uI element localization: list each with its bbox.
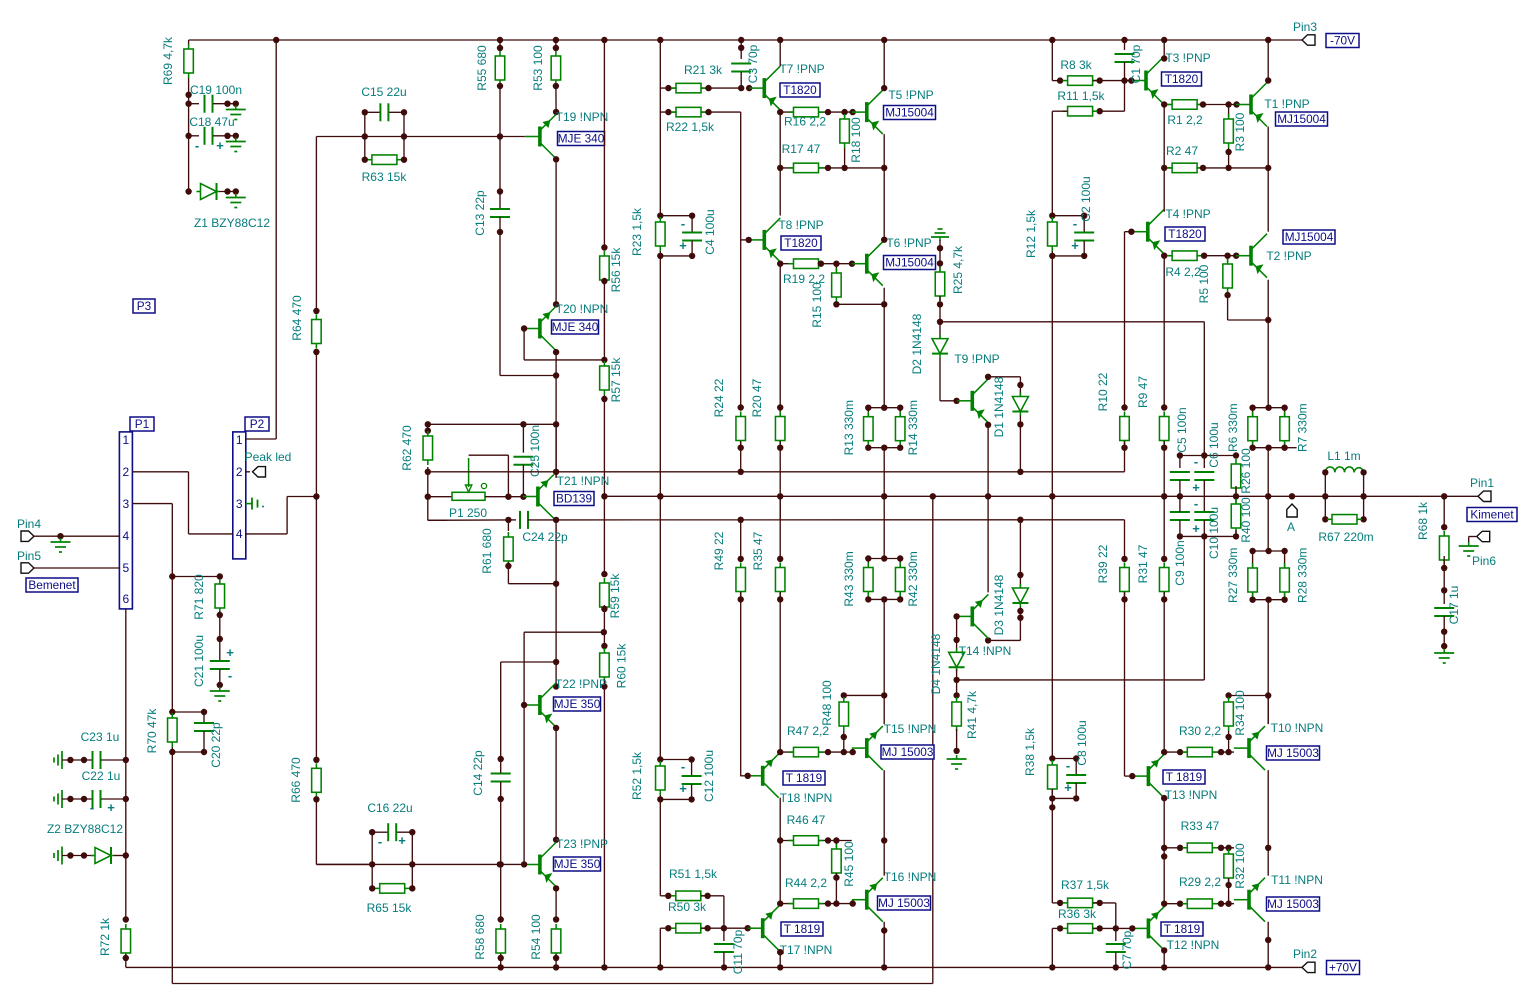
wire T11 emitter to rail — [1267, 922, 1269, 968]
wire R52 to R51 — [659, 795, 661, 896]
svg-text:R62 470: R62 470 — [400, 425, 414, 471]
junctions R17 line — [825, 165, 888, 171]
wire to R71 — [172, 576, 220, 578]
junction R24 at feedback line — [738, 469, 744, 475]
wire R30 line — [1164, 751, 1234, 753]
svg-text:R71 820: R71 820 — [192, 574, 206, 620]
transistor T23 — [525, 843, 556, 887]
wire D3 upper — [1019, 575, 1021, 588]
wire to T21 collector — [555, 376, 557, 477]
svg-text:R53 100: R53 100 — [531, 45, 545, 91]
junction R71 top — [217, 573, 223, 579]
wire y519 to R49 — [740, 520, 742, 559]
junction R1 left — [1161, 101, 1167, 107]
svg-text:R14 330m: R14 330m — [906, 400, 920, 455]
wire — [508, 519, 516, 521]
junction T6 collector — [881, 237, 887, 243]
resistor R62 — [423, 431, 433, 465]
wire C23 right — [101, 759, 126, 761]
junction R16 left — [777, 109, 783, 115]
wire R18 bottom — [844, 148, 846, 168]
svg-text:-: - — [228, 668, 232, 683]
wire T8 emitter to R20 — [779, 262, 781, 408]
resistor R49 — [736, 563, 746, 597]
junction C21 top — [217, 636, 223, 642]
svg-text:R17 47: R17 47 — [782, 142, 821, 156]
svg-text:R26 100: R26 100 — [1239, 448, 1253, 494]
wire T6 emitter to R13-R14 — [883, 288, 885, 408]
svg-text:C5 100n: C5 100n — [1175, 407, 1189, 452]
junction R20 at A rail — [777, 493, 783, 499]
svg-text:C8 100u: C8 100u — [1075, 720, 1089, 765]
junctions pair top — [865, 405, 903, 411]
wire R36 left to rail — [1051, 928, 1053, 967]
wire R4 line — [1164, 255, 1236, 257]
pin Pin6 arrow — [1477, 531, 1490, 541]
resistor R52 — [656, 761, 666, 795]
junction R21 left — [665, 85, 671, 91]
wire bias line lower right — [556, 519, 1124, 521]
junction C24 left — [505, 517, 511, 523]
wire R60 to +70V rail — [603, 679, 605, 967]
wire C5 top stub — [1179, 456, 1181, 469]
wire C23 left — [62, 759, 92, 761]
junction C7 tap — [1113, 925, 1119, 931]
wire R20 to A rail — [779, 441, 781, 496]
svg-text:-: - — [681, 759, 685, 774]
junction D3 at line — [1017, 517, 1023, 523]
label P2 — [245, 417, 269, 431]
wire R5 to T2 emitter — [1228, 319, 1269, 321]
svg-text:R33 47: R33 47 — [1181, 819, 1220, 833]
wire R50 left to rail — [659, 928, 661, 967]
wire P1 pin2 down — [188, 472, 190, 534]
svg-text:T18 !NPN: T18 !NPN — [780, 791, 833, 805]
svg-text:R2 47: R2 47 — [1166, 144, 1198, 158]
wire to C16-R65 pair — [316, 863, 372, 865]
svg-text:R54 100: R54 100 — [529, 914, 543, 960]
wire R70 column to lower rail — [171, 747, 173, 984]
resistor R33 — [1182, 843, 1217, 853]
junction T14 emitter — [985, 637, 991, 643]
junction T3 collector — [1161, 55, 1167, 61]
junctions R4 line — [1201, 253, 1240, 259]
junction R3 bottom — [1225, 149, 1231, 155]
wire D2 top line to C6 column — [940, 321, 1204, 323]
pin Pin3 arrow — [1302, 35, 1315, 45]
junction R72 top — [123, 916, 129, 922]
wire R53 top — [555, 40, 557, 51]
wire R27-R28 top — [1253, 550, 1285, 552]
label -70V — [1326, 34, 1359, 48]
svg-text:Z1 BZY88C12: Z1 BZY88C12 — [194, 216, 270, 230]
wire R6 column — [1252, 408, 1254, 448]
wire R11 column down — [1051, 111, 1053, 758]
wire C11 top stub — [723, 928, 725, 941]
junction R49 at y519 line — [738, 517, 744, 523]
capacitor C25 plates — [513, 457, 533, 465]
wire A rail to R27-R28 — [1267, 496, 1269, 551]
wire R5 top stub — [1227, 256, 1229, 262]
resistor R70 — [168, 713, 178, 747]
wire R59 to R60 — [603, 605, 605, 632]
wire T10 emitter down — [1267, 770, 1269, 848]
junction R39 top — [1121, 556, 1127, 562]
wire feedback line upper — [428, 471, 1125, 473]
junction R9 bottom — [1161, 445, 1167, 451]
junction T3 base — [1128, 77, 1134, 83]
inductor L1 — [1325, 467, 1363, 496]
junction D3 bottom — [1017, 615, 1023, 621]
wire R45 to R44 line — [835, 873, 837, 904]
svg-text:R46 47: R46 47 — [787, 813, 826, 827]
wire C13 stub — [499, 192, 501, 210]
svg-text:+: + — [1192, 521, 1200, 536]
wire R64 to R66 — [315, 352, 317, 760]
junction C13 top — [497, 188, 503, 194]
resistor R60 — [600, 648, 610, 682]
wire T7 collector to rail — [779, 40, 781, 66]
junction R20 top — [777, 404, 783, 410]
junctions R67 — [1322, 516, 1367, 522]
resistor R50 — [671, 923, 706, 933]
resistor R27 — [1248, 563, 1258, 597]
svg-text:R1 2,2: R1 2,2 — [1167, 113, 1203, 127]
junction R10 bottom — [1121, 445, 1127, 451]
junction R34 link — [1265, 692, 1271, 698]
svg-text:Z2 BZY88C12: Z2 BZY88C12 — [47, 822, 123, 836]
wire to pot — [428, 496, 452, 498]
transistor T16 — [852, 878, 883, 922]
junction R29 stub — [1177, 901, 1183, 907]
wire R61 top — [507, 520, 509, 531]
wire bias line lower left — [428, 519, 509, 521]
wire C13 bottom stub — [499, 217, 501, 232]
svg-text:P3: P3 — [137, 299, 152, 313]
junction Pin4 ground — [57, 533, 63, 539]
wire C9 top — [1179, 496, 1181, 512]
wire R61 bottom — [507, 562, 509, 584]
svg-text:C25 100n: C25 100n — [528, 425, 542, 477]
svg-text:MJE 340: MJE 340 — [558, 132, 605, 146]
capacitor C22 plates — [93, 790, 101, 808]
svg-text:P1 250: P1 250 — [449, 506, 487, 520]
resistor R29 — [1182, 899, 1217, 909]
resistor R26 — [1231, 459, 1241, 493]
wire P1 pin2 — [132, 471, 188, 473]
svg-text:T5 !PNP: T5 !PNP — [888, 88, 933, 102]
junction R23 top — [657, 213, 663, 219]
junction T8 base — [746, 237, 752, 243]
svg-text:T1820: T1820 — [784, 236, 818, 250]
svg-text:A: A — [1287, 520, 1295, 534]
svg-text:R9 47: R9 47 — [1136, 376, 1150, 408]
junction R70 bottom — [169, 749, 175, 755]
svg-text:R58 680: R58 680 — [473, 914, 487, 960]
junction C1 bottom — [1121, 77, 1127, 83]
wire R55col to C13 — [499, 137, 501, 192]
junction T21 collector at feedback line — [553, 469, 559, 475]
resistor R21 — [671, 83, 706, 93]
wire D3 to T14 emitter — [988, 639, 1020, 641]
svg-text:C2 100u: C2 100u — [1079, 176, 1093, 221]
wire y520 start — [428, 519, 447, 521]
junction R44 left — [777, 900, 783, 906]
svg-text:T12 !NPN: T12 !NPN — [1167, 938, 1220, 952]
wire T22 base line — [524, 631, 604, 633]
svg-text:T1820: T1820 — [783, 83, 817, 97]
svg-text:R23 1,5k: R23 1,5k — [630, 207, 644, 256]
junctions R44 line — [825, 900, 856, 906]
label BD139 — [554, 492, 594, 506]
wire R61 to emitter chain — [508, 583, 556, 585]
wire — [396, 831, 412, 833]
svg-text:R40 100: R40 100 — [1239, 497, 1253, 543]
wire R43 column — [867, 559, 869, 600]
wire T4 collector up — [1163, 168, 1165, 212]
svg-text:C6 100u: C6 100u — [1207, 422, 1221, 467]
capacitor C23 plates — [93, 751, 101, 769]
wire R43-R42 top — [868, 558, 900, 560]
junctions C23 — [67, 757, 87, 763]
wire D1 to feedback line — [1019, 416, 1021, 472]
wire R41 bottom — [956, 729, 958, 751]
resistor R65 — [375, 884, 410, 894]
junction T14 base — [953, 613, 959, 619]
junction T23 emitter — [553, 885, 559, 891]
svg-text:R21 3k: R21 3k — [684, 63, 723, 77]
label MJ15004 T5 — [884, 106, 936, 120]
wire R71 to C21 — [219, 611, 221, 639]
junctions — [224, 133, 239, 139]
junction R59 top — [601, 571, 607, 577]
wire P2 pin4 — [246, 533, 287, 535]
resistor R46 — [789, 836, 824, 846]
junctions Z2 — [67, 852, 87, 858]
label MJ15004 T2 — [1283, 230, 1335, 244]
wire R21 line — [660, 87, 741, 89]
wire P2 pin2 stub — [246, 471, 250, 473]
diode D2 — [932, 335, 948, 358]
wire R14 column — [899, 408, 901, 448]
pin Peak led arrow — [253, 467, 266, 477]
junctions R1 line — [1200, 101, 1240, 107]
resistor R23 — [656, 217, 666, 251]
wire R5 bottom — [1227, 293, 1229, 320]
junction R39 bottom — [1121, 596, 1127, 602]
junction P2 pin4 tap — [313, 493, 319, 499]
transistor T1 — [1236, 83, 1267, 127]
junctions R38-C8 bottom — [1049, 795, 1079, 810]
svg-text:C9 100n: C9 100n — [1173, 540, 1187, 585]
svg-text:-: - — [1194, 496, 1198, 511]
svg-text:R4 2,2: R4 2,2 — [1165, 265, 1201, 279]
junctions pair bottom — [1249, 445, 1287, 451]
svg-text:+: + — [216, 138, 224, 153]
resistor R64 — [312, 315, 322, 349]
wire T9 emitter to A rail — [987, 423, 989, 497]
svg-text:R8 3k: R8 3k — [1060, 58, 1092, 72]
svg-text:R27 330m: R27 330m — [1226, 548, 1240, 603]
capacitor C3 — [731, 64, 751, 72]
junction R51 left — [665, 893, 671, 899]
wire R51 right — [701, 895, 724, 897]
connector P1 — [119, 432, 132, 609]
label MJ15003 T11 — [1267, 897, 1320, 911]
svg-text:T3 !PNP: T3 !PNP — [1165, 51, 1210, 65]
svg-text:Kimenet: Kimenet — [1470, 508, 1514, 522]
wire -70V column — [659, 40, 661, 216]
svg-text:C1 70p: C1 70p — [1129, 44, 1143, 83]
junction R22 right — [705, 109, 711, 115]
wire T14 collector to A rail — [987, 496, 989, 592]
label T1819 T13 — [1163, 770, 1205, 784]
junction T23 collector — [553, 837, 559, 843]
svg-text:T1820: T1820 — [1165, 72, 1199, 86]
wire Z2 left — [62, 855, 94, 857]
svg-text:R15 100: R15 100 — [810, 282, 824, 328]
svg-text:C22 1u: C22 1u — [82, 769, 121, 783]
wire — [220, 191, 237, 193]
junction T17 emitter — [777, 949, 783, 955]
capacitor C10 — [1194, 512, 1214, 520]
resistor R6 — [1248, 412, 1258, 446]
ground at C19 — [226, 106, 246, 120]
wire -70V top rail — [189, 39, 1302, 41]
wire T5 collector to rail — [883, 40, 885, 88]
wire R13-R14 top — [868, 407, 900, 409]
svg-text:R11 1,5k: R11 1,5k — [1057, 89, 1105, 103]
ground above R25 — [931, 229, 949, 241]
svg-text:R22 1,5k: R22 1,5k — [666, 120, 715, 134]
svg-text:Pin3: Pin3 — [1293, 20, 1317, 34]
junction R57 top — [601, 357, 607, 363]
svg-text:1: 1 — [236, 433, 243, 447]
wire T8 base to R24 — [740, 240, 742, 408]
wire R10 to feedback line — [1124, 441, 1126, 472]
junction R9 top — [1161, 404, 1167, 410]
svg-text:MJ 15003: MJ 15003 — [1267, 897, 1319, 911]
wire C7 top stub — [1115, 928, 1117, 941]
svg-text:T13 !NPN: T13 !NPN — [1165, 788, 1218, 802]
wire R69 top — [188, 40, 190, 44]
wire C4 top stub — [691, 216, 693, 233]
svg-text:R13 330m: R13 330m — [842, 400, 856, 455]
svg-text:R3 100: R3 100 — [1233, 112, 1247, 151]
junction T20 emitter — [553, 349, 559, 355]
svg-text:T14 !NPN: T14 !NPN — [959, 644, 1012, 658]
wire R16 line — [780, 111, 852, 113]
junction C22 at column — [123, 796, 129, 802]
junction C12 top — [688, 756, 694, 762]
wire D3 down — [1019, 607, 1021, 640]
svg-text:P2: P2 — [250, 417, 264, 431]
resistor R9 — [1159, 412, 1169, 446]
junction T16 emitter — [881, 927, 887, 933]
svg-text:Pin5: Pin5 — [17, 549, 41, 563]
wire R57 to A rail — [603, 395, 605, 496]
svg-text:T16 !NPN: T16 !NPN — [884, 870, 937, 884]
wire R17 line — [780, 167, 884, 169]
label T1819 T12 — [1161, 922, 1203, 936]
transistor T20 — [525, 307, 556, 351]
wire +70V bottom rail — [126, 966, 1302, 968]
svg-text:R41 4,7k: R41 4,7k — [965, 690, 979, 739]
svg-text:R56 15k: R56 15k — [609, 247, 623, 293]
svg-text:C14 22p: C14 22p — [471, 750, 485, 796]
wire T19 emitter to T20 collector — [555, 159, 557, 304]
junction R62 bottom at line — [425, 469, 431, 475]
resistor R17 — [789, 163, 824, 173]
junctions R46 line — [825, 837, 888, 843]
transistor T11 — [1234, 878, 1265, 922]
connector P2 — [233, 432, 246, 559]
junction T20 collector — [553, 301, 559, 307]
junction R31 bottom — [1161, 596, 1167, 602]
wire R12-C2 bottom — [1052, 255, 1084, 257]
svg-text:R45 100: R45 100 — [842, 841, 856, 887]
resistor R28 — [1280, 563, 1290, 597]
junction T22 base — [521, 702, 527, 708]
transistor T21 — [523, 475, 554, 519]
wire R19 line — [780, 263, 852, 265]
transistor T12 — [1133, 906, 1164, 950]
junction R56 top — [601, 244, 607, 250]
wire R48 top stub — [843, 695, 845, 699]
wire R72 to rail — [125, 954, 127, 967]
wire R37 right — [1093, 902, 1116, 904]
wire A rail to R35 - none — [779, 496, 781, 520]
junction C14 top — [498, 756, 504, 762]
junctions R69 column — [185, 92, 191, 195]
label T1819 T18 — [783, 771, 825, 785]
resistor R56 — [600, 251, 610, 285]
wire T10 collector up — [1267, 696, 1269, 725]
wire C9-C10-R40 bottom line — [1180, 535, 1236, 537]
wire C12 top stub — [691, 760, 693, 777]
svg-text:BD139: BD139 — [556, 492, 592, 506]
label T1820 T7 — [780, 83, 820, 97]
wire C12 bottom stub — [691, 784, 693, 799]
transistor T10 — [1234, 726, 1265, 770]
resistor R32 — [1224, 849, 1234, 883]
svg-text:R64 470: R64 470 — [290, 295, 304, 341]
junction pair at A rail — [881, 493, 887, 499]
wire R34 to R30 line — [1228, 731, 1230, 752]
transistor T8 — [749, 218, 780, 262]
wire R70-C20 top — [172, 711, 204, 713]
wire R39 to T13 base — [1124, 592, 1126, 776]
svg-text:R60 15k: R60 15k — [615, 643, 629, 689]
resistor R10 — [1120, 412, 1130, 446]
wire R43-R42 bottom — [868, 598, 900, 600]
svg-text:T10 !NPN: T10 !NPN — [1271, 721, 1324, 735]
svg-text:R42 330m: R42 330m — [906, 551, 920, 606]
wire C21 stub — [219, 639, 221, 661]
wire T1 emitter — [1267, 127, 1269, 168]
wire T23 base line — [316, 863, 525, 865]
svg-text:R37 1,5k: R37 1,5k — [1061, 878, 1110, 892]
wire R52-C12 top — [660, 759, 691, 761]
junction T20 base — [521, 325, 527, 331]
wire rail to R8 — [1051, 40, 1053, 81]
svg-text:T23 !PNP: T23 !PNP — [556, 837, 608, 851]
junction R57-R59 at A rail — [601, 493, 607, 499]
junctions — [224, 101, 239, 107]
svg-text:MJ 15003: MJ 15003 — [882, 745, 934, 759]
svg-text:MJ 15003: MJ 15003 — [878, 896, 930, 910]
wire T14 base to D4 — [956, 616, 958, 650]
